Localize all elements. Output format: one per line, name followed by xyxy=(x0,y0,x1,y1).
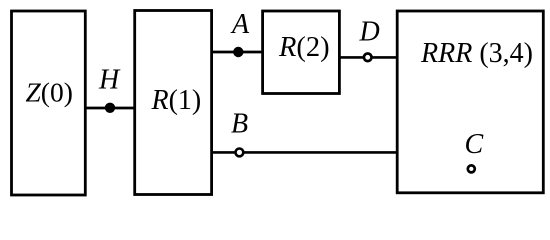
box RRR (3,4) xyxy=(397,11,543,193)
box R(2) xyxy=(263,11,340,94)
svg-text:R(2): R(2) xyxy=(278,32,330,63)
svg-text:Z(0): Z(0) xyxy=(26,76,73,107)
node B xyxy=(236,149,244,157)
box Z(0) xyxy=(12,11,86,195)
svg-text:H: H xyxy=(98,65,121,96)
svg-text:A: A xyxy=(230,9,250,40)
svg-text:R(1): R(1) xyxy=(151,85,202,116)
node D xyxy=(364,54,372,62)
svg-text:C: C xyxy=(465,129,484,160)
node H xyxy=(105,103,115,113)
wire B xyxy=(211,151,398,154)
svg-text:B: B xyxy=(231,109,248,140)
box R(1) xyxy=(135,11,212,195)
wire H xyxy=(85,107,135,110)
wire D xyxy=(339,56,398,59)
svg-text:D: D xyxy=(359,17,380,48)
wire A xyxy=(211,51,263,54)
node C xyxy=(468,165,475,172)
svg-text:RRR (3,4): RRR (3,4) xyxy=(420,38,533,69)
node A xyxy=(233,47,243,57)
